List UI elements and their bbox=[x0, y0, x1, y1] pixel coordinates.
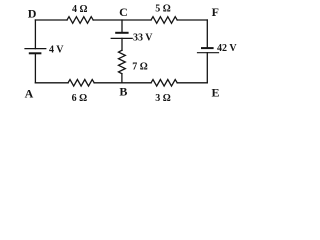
svg-text:4 V: 4 V bbox=[49, 44, 64, 55]
battery 33V negative plate (short thick) bbox=[116, 32, 127, 34]
wire 4-ohm through node C to 5-ohm bbox=[93, 19, 151, 21]
wire 3-ohm to bottom-right corner E bbox=[177, 82, 207, 84]
resistor R 7 ohm (vertical) bbox=[119, 50, 126, 73]
wire bottom-left corner A to 6-ohm bbox=[35, 82, 68, 84]
svg-text:5 Ω: 5 Ω bbox=[155, 4, 171, 15]
svg-text:3 Ω: 3 Ω bbox=[155, 93, 171, 104]
svg-text:6 Ω: 6 Ω bbox=[72, 93, 88, 104]
wire top-left corner D to 4-ohm bbox=[35, 19, 67, 21]
resistor R 3 ohm bbox=[151, 80, 177, 87]
svg-text:A: A bbox=[25, 86, 34, 100]
wire 5-ohm to top-right corner F bbox=[177, 19, 207, 21]
wire 33V battery to 7-ohm bbox=[121, 38, 123, 50]
battery 42V positive plate (long) bbox=[198, 52, 219, 54]
resistor R 6 ohm bbox=[68, 80, 94, 87]
svg-text:B: B bbox=[119, 85, 127, 99]
wire 4V battery to bottom-left corner A bbox=[34, 53, 36, 83]
wire 6-ohm through node B to 3-ohm bbox=[94, 82, 151, 84]
wire 7-ohm down to node B bbox=[121, 74, 123, 83]
battery 42V negative plate (short thick) bbox=[202, 47, 213, 49]
battery 4V negative plate (short thick) bbox=[30, 52, 41, 54]
wire right edge F down to 42V battery bbox=[206, 20, 208, 48]
svg-text:33 V: 33 V bbox=[133, 33, 153, 44]
wire 42V battery to bottom-right corner E bbox=[206, 53, 208, 83]
svg-text:4 Ω: 4 Ω bbox=[72, 4, 88, 15]
wire node C down to 33V battery bbox=[121, 20, 123, 33]
battery 33V positive plate (long) bbox=[111, 37, 132, 39]
svg-text:F: F bbox=[212, 5, 219, 19]
svg-text:C: C bbox=[119, 5, 128, 19]
battery 4V positive plate (long) bbox=[25, 48, 46, 50]
wire left edge D down to 4V battery bbox=[34, 20, 36, 49]
resistor R 5 ohm bbox=[151, 17, 177, 24]
svg-text:7 Ω: 7 Ω bbox=[132, 62, 148, 73]
resistor R 4 ohm bbox=[67, 17, 93, 24]
svg-text:D: D bbox=[28, 6, 37, 20]
svg-text:E: E bbox=[212, 86, 220, 100]
svg-text:42 V: 42 V bbox=[217, 43, 237, 54]
